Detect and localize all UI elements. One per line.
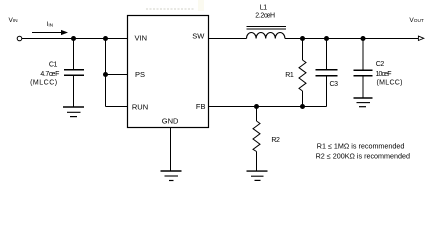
svg-text:GND: GND [162,116,179,125]
svg-text:RUN: RUN [132,102,148,111]
svg-text:SW: SW [192,32,205,41]
svg-text:VIN: VIN [135,33,148,42]
svg-text:R1 ≤ 1MΩ is recommended: R1 ≤ 1MΩ is recommended [317,141,405,150]
svg-text:2.2œH: 2.2œH [255,13,275,20]
svg-text:10œF: 10œF [376,71,392,78]
svg-text:(MLCC): (MLCC) [30,80,58,87]
svg-text:C1: C1 [49,62,58,69]
svg-text:PS: PS [135,70,145,79]
svg-text:(MLCC): (MLCC) [377,80,403,87]
svg-text:R2: R2 [271,137,280,144]
svg-text:L1: L1 [260,4,267,11]
svg-text:FB: FB [196,102,206,111]
svg-text:R1: R1 [285,72,294,79]
svg-text:C3: C3 [330,81,339,88]
svg-text:R2 ≤ 200KΩ is recommended: R2 ≤ 200KΩ is recommended [316,151,410,160]
svg-text:C2: C2 [376,61,385,68]
svg-text:4.7œF: 4.7œF [40,71,59,78]
